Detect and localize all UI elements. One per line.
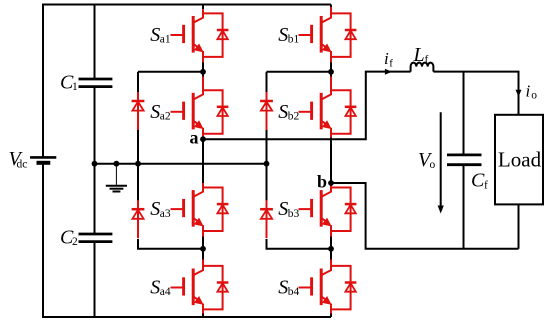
wire: node b to output bottom (331, 183, 519, 249)
wire: Sb4 collector stub (330, 249, 332, 260)
svg-text:S: S (150, 101, 160, 123)
wire: Cf branch upper (463, 72, 465, 154)
svg-text:b: b (317, 172, 327, 192)
wire: DC midpoint bus mid (94, 87, 96, 234)
svg-text:Load: Load (498, 148, 542, 172)
junction Sa3-Sa4 (200, 246, 206, 252)
arrow Vo (440, 112, 442, 206)
wire: clamp b upper horizontal (267, 71, 332, 73)
capacitor Cf (447, 155, 482, 165)
ground (106, 164, 127, 192)
wire: top DC bus (43, 4, 331, 6)
wire: left DC rail upper (42, 4, 44, 158)
wire: Sa1 collector stub (202, 5, 204, 10)
arrow i_o (516, 90, 522, 97)
label Cf (471, 170, 488, 192)
svg-text:S: S (278, 198, 288, 220)
label Lf (413, 44, 429, 66)
wire: Sb2 collector stub red (330, 77, 332, 92)
svg-text:L: L (413, 44, 425, 66)
wire: Sb2 emitter stub red (330, 133, 332, 138)
junction midpoint-neutral (92, 161, 98, 167)
wire: Sb3 collector stub red (330, 183, 332, 187)
svg-text:b2: b2 (288, 111, 300, 123)
wire: Sb2 collector stub (330, 72, 332, 77)
svg-text:o: o (430, 159, 436, 171)
svg-text:a2: a2 (160, 111, 171, 123)
wire: Sb3 emitter stub red (330, 230, 332, 237)
svg-text:a3: a3 (160, 208, 171, 220)
svg-text:a4: a4 (160, 286, 171, 298)
arrow i_f (385, 69, 392, 75)
wire: Sa3 emitter stub red (202, 230, 204, 237)
svg-text:S: S (278, 277, 288, 299)
wire: Sa1 emitter stub red (202, 56, 204, 63)
wire: DC midpoint bus lower (94, 242, 96, 318)
wire: Sa4 emitter stub red (202, 308, 204, 313)
wire: clamp a lower vertical (137, 164, 139, 206)
wire: Sa4 collector stub red (202, 260, 204, 266)
wire: Sa3 collector stub red (202, 183, 204, 187)
inductor Lf (411, 63, 434, 72)
wire: Sb1 collector stub red (330, 7, 332, 14)
junction Sb3-Sb4 (328, 246, 334, 252)
junction node b (328, 180, 334, 186)
svg-text:b1: b1 (288, 34, 300, 46)
label Sa1 (150, 24, 171, 46)
junction Sa1-Sa2 (200, 69, 206, 75)
svg-text:2: 2 (72, 236, 78, 248)
wire: Sa2 emitter stub red (202, 133, 204, 138)
IGBT Sa2 (171, 90, 229, 134)
wire: clamp a upper vertical (137, 72, 139, 92)
label Sa3 (150, 198, 171, 220)
label C1 (60, 72, 78, 94)
load box (495, 115, 543, 205)
svg-text:S: S (150, 24, 160, 46)
label Sb1 (278, 24, 299, 46)
svg-text:f: f (389, 58, 393, 70)
wire: Sa4 emitter to bus (202, 314, 204, 318)
svg-text:S: S (150, 198, 160, 220)
clamp diode Da2 (132, 200, 145, 238)
wire: node a to output riser (203, 72, 411, 140)
wire: Sb1-Sb2 link (330, 63, 332, 72)
battery Vdc (30, 157, 56, 162)
svg-text:S: S (150, 277, 160, 299)
label Vo (418, 149, 436, 171)
capacitor C2 (79, 234, 113, 242)
label Sb3 (278, 198, 299, 220)
wire: clamp b lower to junction (267, 239, 332, 249)
svg-text:f: f (484, 180, 488, 192)
svg-text:b3: b3 (288, 208, 300, 220)
wire: Sb2 emitter to node b (330, 137, 332, 183)
wire: Sa3-Sa4 link (202, 237, 204, 249)
svg-text:f: f (425, 54, 429, 66)
svg-text:i: i (384, 49, 389, 68)
label Sb4 (278, 277, 299, 299)
wire: clamp a lower to junction (138, 239, 203, 249)
wire: Sb4 emitter to bus (330, 314, 332, 318)
junction node a (200, 136, 206, 142)
wire: left DC rail lower (42, 163, 44, 318)
wire: clamp b lower vertical (266, 164, 268, 206)
IGBT Sa1 (171, 13, 229, 57)
junction Sb1-Sb2 (328, 69, 334, 75)
wire: Sa2 collector stub (202, 72, 204, 77)
svg-text:1: 1 (72, 81, 78, 93)
svg-text:i: i (526, 82, 531, 101)
wire: neutral bus (95, 163, 267, 165)
wire: Cf branch lower (463, 166, 465, 249)
wire: Sb3-Sb4 link (330, 237, 332, 249)
junction clamp a neutral (135, 161, 141, 167)
svg-text:b4: b4 (288, 286, 300, 298)
junction ground tap (114, 161, 120, 167)
wire: Sa1 collector stub red (202, 9, 204, 14)
svg-text:S: S (278, 101, 288, 123)
wire: Sb4 emitter stub red (330, 308, 332, 313)
wire: Sa4 collector stub (202, 249, 204, 260)
wire: DC midpoint bus upper (94, 4, 96, 80)
label if (384, 49, 393, 70)
IGBT Sb3 (299, 188, 357, 232)
clamp diode Db1 (260, 92, 273, 130)
svg-text:a: a (190, 128, 199, 148)
wire: Sa2 collector stub red (202, 77, 204, 92)
svg-text:a1: a1 (160, 34, 171, 46)
wire: load bottom (518, 204, 520, 248)
IGBT Sb4 (299, 266, 357, 310)
label Sa2 (150, 101, 171, 123)
label C2 (60, 227, 78, 249)
IGBT Sa4 (171, 266, 229, 310)
capacitor C1 (79, 79, 113, 87)
wire: node a to Sa3 (202, 139, 204, 183)
wire: Sa1-Sa2 link (202, 63, 204, 72)
IGBT Sa3 (171, 188, 229, 232)
wire: Lf to load (433, 72, 518, 115)
label io (526, 82, 538, 102)
wire: bottom DC bus (43, 316, 331, 318)
IGBT Sb2 (299, 90, 357, 134)
wire: clamp b upper to neutral (266, 130, 268, 164)
junction clamp b neutral (264, 161, 270, 167)
label Vdc (9, 148, 28, 171)
svg-text:S: S (278, 24, 288, 46)
svg-text:C: C (471, 170, 485, 192)
IGBT Sb1 (299, 13, 357, 57)
svg-text:o: o (531, 89, 537, 101)
wire: clamp a upper to neutral (137, 130, 139, 164)
svg-text:dc: dc (17, 158, 28, 170)
label Sb2 (278, 101, 299, 123)
wire: Sb1 emitter stub red (330, 56, 332, 63)
wire: clamp b upper vertical (266, 72, 268, 92)
clamp diode Da1 (132, 92, 145, 130)
wire: Sb1 collector stub (330, 5, 332, 8)
wire: clamp a upper horizontal (138, 71, 203, 73)
wire: Sb4 collector stub red (330, 260, 332, 266)
label Sa4 (150, 277, 171, 299)
clamp diode Db2 (260, 200, 273, 238)
wire: Sa2 emitter to node a (202, 137, 204, 139)
